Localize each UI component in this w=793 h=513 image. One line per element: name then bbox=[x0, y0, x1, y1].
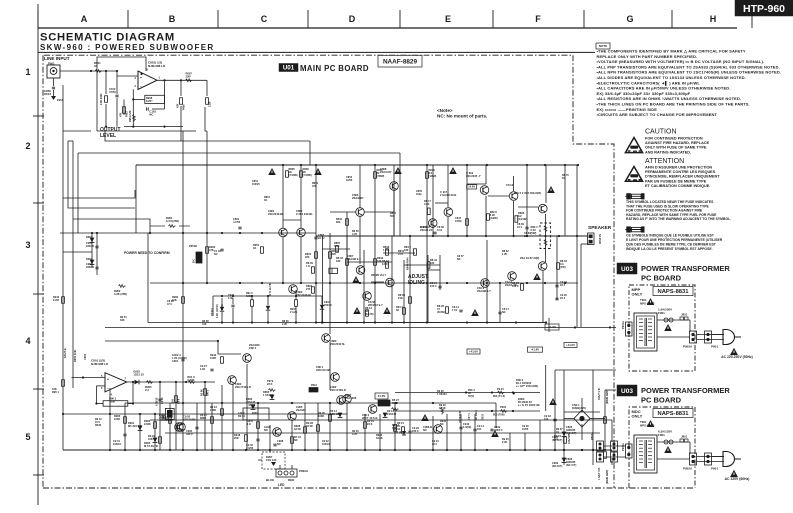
svg-text:104: 104 bbox=[544, 417, 549, 421]
relay RL1 label bbox=[516, 378, 540, 407]
capacitor C102 47/50 bbox=[109, 76, 119, 127]
resistor R821b bbox=[294, 424, 306, 433]
svg-text:10/50: 10/50 bbox=[455, 219, 462, 223]
svg-text:47 0: 47 0 bbox=[167, 303, 172, 306]
svg-text:8.2K*: 8.2K* bbox=[146, 99, 153, 103]
R928 C904 labels bbox=[376, 428, 406, 440]
ground rail bottom bbox=[63, 449, 612, 451]
svg-text:P931: P931 bbox=[311, 384, 317, 387]
svg-text:FOR CONTINUED PROTECTION: FOR CONTINUED PROTECTION bbox=[645, 137, 703, 141]
transistor Q817 2SA933 bbox=[440, 190, 456, 216]
bottom vertical wires bbox=[110, 364, 612, 465]
svg-text:1 K: 1 K bbox=[306, 264, 310, 268]
speaker connector P961 bbox=[588, 233, 602, 245]
svg-text:R9 9: R9 9 bbox=[178, 398, 181, 404]
wires power supply rows bbox=[395, 365, 616, 412]
svg-text:C951: C951 bbox=[172, 359, 179, 363]
svg-text:CAUTION: CAUTION bbox=[645, 129, 677, 136]
primary connector P904A 2 bbox=[621, 443, 632, 458]
transistor Q907 HRA100M bbox=[316, 365, 339, 381]
svg-text:20K: 20K bbox=[234, 436, 239, 440]
grid top border line bbox=[38, 27, 737, 29]
svg-text:2.9K R102: 2.9K R102 bbox=[100, 93, 103, 105]
resistor R817 3.3K bbox=[424, 199, 431, 215]
svg-text:P956: P956 bbox=[183, 104, 186, 110]
svg-text:1SS 133: 1SS 133 bbox=[266, 458, 277, 462]
svg-text:9.60K: 9.60K bbox=[187, 378, 194, 382]
svg-text:SKW-960 : POWERED SUBWOOFER: SKW-960 : POWERED SUBWOOFER bbox=[40, 43, 215, 52]
transistor Q809 2SC2023 bbox=[363, 292, 383, 307]
svg-text:•ALL DIODES ARE EQUIVALENT TO: •ALL DIODES ARE EQUIVALENT TO 1SS133 UNL… bbox=[597, 75, 747, 80]
resistor R811 82 bbox=[374, 168, 385, 178]
resistor R821 220 bbox=[305, 252, 317, 259]
svg-text:E LENT POUR UNE PROTECTION PER: E LENT POUR UNE PROTECTION PERMANENTE (U… bbox=[626, 238, 723, 242]
transistor Q804b 2SA933 bbox=[243, 343, 260, 362]
svg-text:POWER TRANSFORMER: POWER TRANSFORMER bbox=[641, 264, 730, 273]
svg-text:(MAIN AMP): (MAIN AMP) bbox=[606, 470, 609, 484]
diode D951b bbox=[220, 298, 224, 323]
resistor R822 220 bbox=[329, 249, 339, 258]
capacitor C913 12K bbox=[172, 353, 187, 363]
svg-text:D3SB(A20): D3SB(A20) bbox=[572, 406, 586, 410]
warning triangle under fuse 2 bbox=[664, 446, 672, 453]
resistor R833 3.3 bbox=[557, 259, 568, 269]
capacitor C851 220/16 bbox=[86, 241, 99, 248]
op-amp U951B NJM4558 bbox=[91, 359, 127, 397]
voltage box AKIN bbox=[545, 324, 559, 330]
svg-text:100 0: 100 0 bbox=[430, 284, 437, 288]
resistor R828 390 bbox=[487, 210, 498, 220]
svg-text:AGAINST FIRE HAZARD, REPLACE: AGAINST FIRE HAZARD, REPLACE bbox=[645, 141, 710, 145]
svg-text:2SA/98 9-Y: 2SA/98 9-Y bbox=[477, 289, 491, 293]
svg-text:33 0K: 33 0K bbox=[306, 424, 313, 428]
svg-text:1K: 1K bbox=[562, 177, 565, 180]
svg-text:-41.6V: -41.6V bbox=[531, 348, 539, 352]
svg-text:21 K: 21 K bbox=[398, 253, 403, 256]
wires connector to plug 2 bbox=[697, 457, 725, 462]
capacitor C904b 200/16 bbox=[320, 296, 332, 323]
svg-text:200*: 200* bbox=[186, 75, 192, 79]
resistor 39K R9 9 rotated bbox=[172, 382, 181, 450]
capacitor C940 rotated bbox=[156, 382, 165, 450]
capacitor C909 220/50 bbox=[490, 426, 503, 432]
NAPS-8831 code 1 bbox=[653, 287, 693, 296]
amp horizontal wires bbox=[105, 184, 616, 420]
left labels rotated bbox=[63, 348, 87, 362]
svg-text:SCHEMATIC DIAGRAM: SCHEMATIC DIAGRAM bbox=[40, 32, 175, 44]
svg-text:B-C: B-C bbox=[193, 258, 196, 263]
svg-text:10K: 10K bbox=[148, 437, 153, 441]
svg-text:HTP-960: HTP-960 bbox=[743, 3, 785, 15]
fuse note english text bbox=[626, 200, 731, 221]
cord connector P901 2 bbox=[705, 453, 719, 471]
rotated labels mid bottom bbox=[459, 410, 485, 423]
resistor R806 1K bbox=[300, 167, 312, 177]
grid left border lines bbox=[37, 4, 39, 505]
svg-text:•ALL PNP TRANSISTORS ARE EQUIV: •ALL PNP TRANSISTORS ARE EQUIVALENT TO 2… bbox=[597, 64, 780, 69]
resistor R919 22K bbox=[364, 419, 375, 428]
resistor R826b bbox=[566, 452, 606, 467]
svg-text:NPS-928 P: NPS-928 P bbox=[640, 301, 655, 305]
rotated bus labels right bbox=[568, 388, 609, 484]
svg-text:HRA/10 0M: HRA/10 0M bbox=[316, 368, 331, 372]
svg-text:21K: 21K bbox=[398, 296, 403, 300]
transistor Q909 C908 NC bbox=[423, 425, 442, 434]
R927 680K resistor bbox=[392, 398, 400, 410]
svg-text:P803A: P803A bbox=[590, 432, 594, 440]
svg-text:3.3K (2/W): 3.3K (2/W) bbox=[114, 292, 127, 296]
svg-text:1SS1 33: 1SS1 33 bbox=[133, 373, 144, 377]
diode D906 1SS133 bbox=[552, 458, 566, 468]
capacitor C904 330 bbox=[186, 427, 199, 436]
svg-text:C80 4: C80 4 bbox=[249, 346, 257, 350]
model label HTP-960 bbox=[735, 0, 793, 16]
svg-text:(NC C/T): (NC C/T) bbox=[566, 463, 577, 467]
svg-text:(3/4W): (3/4W) bbox=[437, 310, 445, 314]
svg-text:•VOLTAGE (MEASURED WITH VOLTME: •VOLTAGE (MEASURED WITH VOLTMETER) ▭ B D… bbox=[597, 59, 765, 64]
svg-text:P901: P901 bbox=[711, 345, 718, 349]
svg-text:NAPS-8831: NAPS-8831 bbox=[658, 289, 690, 295]
svg-text:NC: No mount of parts.: NC: No mount of parts. bbox=[437, 114, 487, 119]
svg-text:PC BOARD: PC BOARD bbox=[641, 274, 682, 283]
output rail to speaker bbox=[316, 235, 588, 237]
svg-text:SPEAKER: SPEAKER bbox=[588, 225, 612, 231]
capacitor C819 220 bbox=[555, 280, 567, 287]
resistor 47K P956 vertical bbox=[177, 80, 186, 141]
svg-text:(1/2W): (1/2W) bbox=[490, 216, 498, 220]
feedback row wire bbox=[148, 233, 547, 324]
fuse F901 symbol 1 bbox=[657, 318, 690, 322]
cluster rail dots bbox=[221, 321, 323, 323]
idling pot bbox=[329, 268, 338, 273]
cluster top wire bbox=[213, 295, 322, 316]
transistor Q801 2SC2240-BL bbox=[268, 209, 287, 237]
diode D51 MTZ rotated bbox=[266, 283, 272, 322]
svg-text:ONLY: ONLY bbox=[632, 414, 643, 419]
svg-text:R844 P844: R844 P844 bbox=[407, 257, 410, 270]
svg-text:•ALL CAPACITORS ARE IN µF/50WV: •ALL CAPACITORS ARE IN µF/50WV UNLESS OT… bbox=[597, 86, 731, 91]
svg-text:U03: U03 bbox=[621, 388, 633, 395]
svg-text:NC: NC bbox=[149, 113, 153, 117]
warning triangle near transformer 1 bbox=[647, 298, 655, 305]
svg-text:10K: 10K bbox=[202, 323, 207, 326]
U03 label board 2 bbox=[617, 385, 637, 396]
resistor R903 100K bbox=[114, 414, 126, 423]
primary connector P904A 1 bbox=[621, 321, 632, 336]
resistor R805 1K bbox=[286, 167, 298, 177]
svg-text:P902: P902 bbox=[500, 405, 507, 409]
svg-text:D'INCENDIE, REMPLACER UNIQUEME: D'INCENDIE, REMPLACER UNIQUEMENT bbox=[645, 175, 720, 179]
svg-text:LED: LED bbox=[278, 483, 285, 487]
svg-text:•THE THICK LINES ON PC BOARD A: •THE THICK LINES ON PC BOARD ARE THE PRI… bbox=[597, 102, 750, 107]
svg-text:+: + bbox=[140, 76, 142, 80]
svg-text:100K: 100K bbox=[114, 417, 120, 421]
svg-text:1 2K): 1 2K) bbox=[383, 248, 389, 252]
U03 label board 1 bbox=[617, 263, 637, 274]
svg-text:NJM-088 LD: NJM-088 LD bbox=[148, 64, 166, 68]
svg-text:NC: NC bbox=[423, 428, 427, 432]
resistor R910b 100K bbox=[246, 292, 253, 323]
svg-text:P902A: P902A bbox=[683, 467, 693, 471]
svg-text:(1/8 W): (1/8 W) bbox=[365, 312, 374, 316]
transistor Q811 2SA989 bbox=[477, 279, 491, 293]
svg-text:E: E bbox=[445, 14, 451, 24]
svg-text:100K: 100K bbox=[210, 356, 216, 360]
svg-text:BLUE: BLUE bbox=[266, 478, 274, 482]
wires to LED bbox=[258, 450, 292, 469]
capacitor C852 220/16 bbox=[86, 262, 99, 269]
svg-text:220/5 0: 220/5 0 bbox=[494, 429, 503, 432]
capacitor C817 NC bbox=[498, 307, 509, 314]
warning triangles amp area bbox=[268, 167, 557, 437]
svg-text:G: G bbox=[626, 14, 633, 24]
pot R956 8.2K bbox=[145, 95, 165, 103]
svg-text:IDLING: IDLING bbox=[408, 280, 425, 286]
rotated labels 1.2K cluster bbox=[211, 304, 224, 318]
resistor R916 100K bbox=[210, 405, 223, 415]
svg-text:U03: U03 bbox=[621, 266, 633, 273]
transistor Q810 2SC2023 bbox=[371, 273, 394, 287]
svg-text:C81 5 2 3C5 359-O(R): C81 5 2 3C5 359-O(R) bbox=[514, 191, 541, 195]
svg-text:0.01: 0.01 bbox=[437, 228, 443, 232]
resistor R842 180 bbox=[404, 245, 416, 255]
wire horizontal y131 bbox=[97, 130, 183, 132]
svg-text:C8 13: C8 13 bbox=[506, 183, 514, 187]
svg-text:10/50: 10/50 bbox=[346, 179, 353, 182]
capacitor C829 2200 bbox=[408, 426, 419, 433]
svg-text:2.2: 2.2 bbox=[145, 388, 149, 392]
svg-text:100: 100 bbox=[524, 235, 529, 238]
svg-text:220 0: 220 0 bbox=[412, 429, 419, 433]
voltage box +41.6V b bbox=[564, 343, 577, 348]
resistor R965 2.2 bbox=[145, 381, 153, 393]
svg-text:2 3C2 240-BL: 2 3C2 240-BL bbox=[296, 212, 313, 216]
svg-text:RAT1: RAT1 bbox=[207, 389, 210, 396]
transistor Q905 2SA933 bbox=[288, 405, 307, 420]
transistor Q902 2SC1740 bbox=[330, 385, 351, 403]
svg-text:8A MAIN: 8A MAIN bbox=[598, 234, 601, 244]
svg-text:R3 9K: R3 9K bbox=[201, 389, 204, 396]
resistor R927 680K bbox=[200, 413, 213, 423]
svg-text:M TZ-DL7B: M TZ-DL7B bbox=[144, 444, 158, 448]
jumper J801 1 bbox=[680, 313, 688, 321]
svg-text:2.2K: 2.2K bbox=[282, 323, 287, 326]
transistor Q908 2SA933b bbox=[337, 393, 357, 404]
svg-text:PAR UN FUSIBLE DE MEME TYPE: PAR UN FUSIBLE DE MEME TYPE bbox=[645, 179, 707, 183]
R952 resistor 3.3K bbox=[114, 285, 127, 297]
resistor R921 1K bbox=[394, 421, 405, 431]
svg-text:1.2K (1/2 W): 1.2K (1/2 W) bbox=[216, 304, 219, 318]
svg-text:(7/10W): (7/10W) bbox=[289, 173, 298, 177]
svg-text:C8? 4: C8? 4 bbox=[468, 413, 471, 420]
svg-text:P951B: P951B bbox=[189, 244, 197, 248]
resistor R928 33K bbox=[306, 421, 319, 431]
svg-text:P953: P953 bbox=[126, 111, 129, 117]
svg-text:D: D bbox=[349, 14, 356, 24]
svg-text:4.7K: 4.7K bbox=[352, 233, 357, 236]
NAAF-8829 board code bbox=[378, 55, 422, 67]
svg-text:−: − bbox=[140, 85, 142, 89]
svg-text:18.0K: 18.0K bbox=[376, 437, 383, 440]
svg-text:4: 4 bbox=[25, 336, 30, 346]
wire loop above op-amp bbox=[97, 57, 146, 131]
resistor R901 800 bbox=[468, 387, 505, 398]
svg-text:LEVEL: LEVEL bbox=[100, 133, 116, 139]
voltage box -41.6V bbox=[528, 347, 543, 352]
svg-text:NAAF-8829: NAAF-8829 bbox=[383, 58, 418, 65]
resistor R933 NC bbox=[291, 435, 302, 443]
svg-text:2SC2235 -Y: 2SC2235 -Y bbox=[466, 174, 481, 178]
feedback resistor R963 180K bbox=[103, 397, 128, 407]
svg-text:33K: 33K bbox=[120, 319, 125, 322]
svg-text:J801: J801 bbox=[681, 435, 688, 439]
svg-text:100/25: 100/25 bbox=[252, 183, 260, 186]
capacitor C910 1.0/50 bbox=[459, 422, 471, 429]
svg-text:1K: 1K bbox=[253, 246, 256, 250]
svg-text:2SC2240-BL: 2SC2240-BL bbox=[296, 293, 312, 297]
svg-text:F901: F901 bbox=[658, 433, 665, 437]
svg-text:2SA1008: 2SA1008 bbox=[345, 396, 357, 400]
svg-text:200/16: 200/16 bbox=[324, 304, 332, 307]
svg-text:C951: C951 bbox=[83, 353, 87, 360]
svg-text:1SS 133: 1SS 133 bbox=[330, 412, 341, 416]
svg-text:100K: 100K bbox=[210, 408, 216, 412]
svg-text:PC BOARD: PC BOARD bbox=[641, 396, 682, 405]
svg-text:3.3K: 3.3K bbox=[334, 244, 340, 248]
transistor Q802 2SC2240-BL bbox=[296, 209, 313, 237]
svg-text:2SC2240-BL: 2SC2240-BL bbox=[268, 212, 284, 216]
emitter resistor dashed box bbox=[531, 223, 551, 249]
board connector P902A 1 bbox=[683, 331, 697, 349]
title underline bbox=[38, 51, 595, 53]
svg-text:220/16: 220/16 bbox=[86, 244, 94, 248]
capacitor C802 NC bbox=[214, 249, 224, 256]
svg-text:4.7/50: 4.7/50 bbox=[233, 220, 241, 224]
resistor R902 10K bbox=[172, 295, 184, 303]
svg-text:470K: 470K bbox=[248, 403, 256, 407]
svg-text:33 0K: 33 0K bbox=[294, 427, 301, 431]
resistor R826 8.2 bbox=[515, 211, 527, 222]
resistor R929 33K bbox=[439, 404, 447, 426]
svg-text:22 4: 22 4 bbox=[560, 296, 566, 300]
svg-text:(1/21W): (1/21W) bbox=[518, 217, 527, 221]
svg-text:33 0K: 33 0K bbox=[439, 407, 446, 410]
output level pot wires staircase bbox=[63, 85, 400, 450]
svg-text:2SA933: 2SA933 bbox=[296, 408, 306, 412]
svg-text:NC: NC bbox=[264, 428, 268, 432]
capacitor C958 bbox=[44, 78, 64, 102]
resistor R904 20.2K bbox=[290, 290, 298, 323]
resistor R809 1K bbox=[306, 261, 314, 273]
svg-text:M TZ JL/VB: M TZ JL/VB bbox=[270, 283, 272, 296]
svg-text:1 SS133: 1 SS133 bbox=[437, 393, 447, 396]
capacitor C840 1.0/50 bbox=[246, 439, 260, 450]
svg-text:U01: U01 bbox=[283, 65, 295, 72]
svg-text:4.7K: 4.7K bbox=[352, 433, 357, 436]
diode D951 MTZ27B bbox=[86, 235, 94, 242]
svg-text:PERMANENTE CONTRE LES RISQUES: PERMANENTE CONTRE LES RISQUES bbox=[645, 170, 716, 174]
svg-text:−: − bbox=[107, 387, 109, 391]
svg-text:100p: 100p bbox=[416, 193, 422, 196]
connector P803A stack bbox=[590, 432, 618, 462]
svg-text:2.2K: 2.2K bbox=[502, 441, 507, 444]
grid column ticks bbox=[38, 10, 752, 28]
resistor R910 100K bbox=[210, 353, 223, 363]
wire opamp output bbox=[157, 79, 207, 81]
wire fuse to connector 1 bbox=[689, 320, 691, 332]
board outline dash-dot 1 bbox=[629, 285, 695, 371]
board connector P902A 2 bbox=[683, 453, 697, 471]
mid rails to right bbox=[105, 326, 611, 354]
svg-text:NC: NC bbox=[214, 252, 218, 256]
svg-text:180: 180 bbox=[377, 259, 382, 263]
wire fuse to connector 2 bbox=[689, 442, 691, 454]
svg-text:P904A: P904A bbox=[621, 321, 625, 329]
wire output to speaker bbox=[581, 243, 589, 245]
jumper J801 2 bbox=[680, 435, 688, 443]
svg-text:330 pf: 330 pf bbox=[394, 431, 401, 434]
svg-text:820: 820 bbox=[336, 220, 341, 224]
grid row numbers bbox=[25, 67, 30, 442]
capacitor C803 22u bbox=[314, 233, 325, 240]
svg-text:LINE INPUT: LINE INPUT bbox=[44, 56, 70, 61]
AC plug 2 bbox=[723, 452, 741, 467]
resistor R941 820 bbox=[336, 217, 348, 225]
svg-text:180: 180 bbox=[404, 248, 409, 252]
LED labels bbox=[266, 478, 295, 487]
svg-text:1 01: 1 01 bbox=[452, 308, 458, 312]
svg-text:2 0.2K: 2 0.2K bbox=[290, 311, 298, 314]
resistor R808 21K bbox=[398, 293, 411, 303]
resistor R902b 800 bbox=[493, 405, 508, 417]
svg-text:100/16: 100/16 bbox=[113, 442, 121, 446]
svg-text:+: + bbox=[107, 378, 109, 382]
resistor R843b 180 bbox=[374, 256, 384, 265]
resistor R814 82 bbox=[396, 305, 405, 314]
wire input step to opamp bbox=[116, 70, 138, 76]
warning triangle near transformer 2 bbox=[647, 420, 655, 427]
svg-text:NC: NC bbox=[457, 258, 461, 261]
transistor Q819 2SC2235 bbox=[466, 171, 489, 194]
capacitor C814 101 bbox=[452, 305, 463, 312]
svg-text:2SC24 23: 2SC24 23 bbox=[420, 228, 432, 232]
svg-text:ONLY WITH FUSE OF SAME TYPE: ONLY WITH FUSE OF SAME TYPE bbox=[645, 146, 707, 150]
wires connector to plug 1 bbox=[697, 335, 725, 340]
capacitor C809 100p bbox=[517, 222, 529, 229]
svg-text:UTZ/UM B: UTZ/UM B bbox=[459, 411, 462, 423]
svg-text:41.6V: 41.6V bbox=[378, 394, 386, 398]
resistor R809 47 bbox=[437, 304, 448, 314]
warning triangle near plug 2 bbox=[730, 470, 738, 477]
warning triangle near plug 1 bbox=[730, 348, 738, 355]
transistor Q803 2SC2240 bbox=[289, 285, 312, 297]
resistor R816 12K bbox=[382, 259, 389, 268]
svg-text:•THE COMPONENTS IDENTIFIED BY: •THE COMPONENTS IDENTIFIED BY MARK △ ARE… bbox=[597, 49, 746, 54]
svg-text:P904A: P904A bbox=[621, 443, 625, 451]
resistor R905 9.6K bbox=[144, 419, 156, 428]
resistor R824 3.3 bbox=[554, 434, 566, 443]
svg-text:REPLACE ONLY WITH PART NUMBER: REPLACE ONLY WITH PART NUMBER SPECIFIED. bbox=[597, 54, 698, 59]
diode D801 1SS133 bbox=[246, 397, 256, 409]
capacitor C927 1.60 bbox=[228, 294, 235, 323]
svg-text:P9 01: P9 01 bbox=[497, 387, 504, 391]
svg-text:NJM-088 LD: NJM-088 LD bbox=[91, 362, 109, 366]
svg-text:R948: R948 bbox=[95, 424, 102, 427]
svg-text:1.60: 1.60 bbox=[228, 297, 233, 300]
resistor R917 1K bbox=[247, 419, 259, 428]
svg-text:47K: 47K bbox=[120, 112, 123, 117]
svg-text:NAPS-8831: NAPS-8831 bbox=[658, 411, 690, 417]
